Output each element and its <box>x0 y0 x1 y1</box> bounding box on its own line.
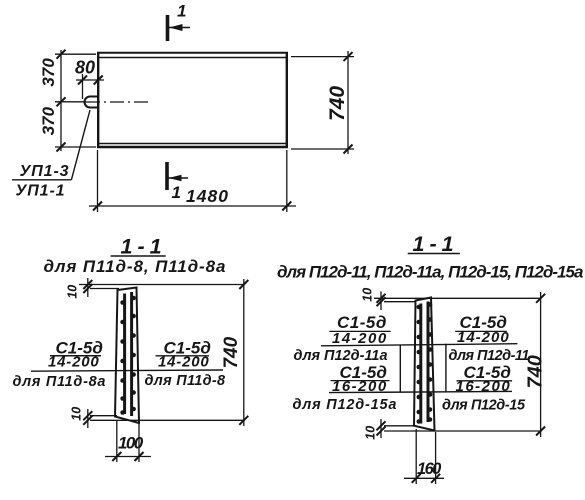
right dim 10 top: lower extension <box>384 301 417 303</box>
left dim 10 bottom: lower extension <box>90 419 244 421</box>
left dim 100: ticks <box>112 452 143 461</box>
right section leader A <box>321 344 517 346</box>
svg-text:14-200: 14-200 <box>48 354 100 371</box>
svg-text:10: 10 <box>361 288 375 302</box>
right labels left2: fraction line <box>331 380 390 382</box>
dimension 1480: dim line <box>89 205 296 207</box>
dimension 370/370: dim line <box>60 50 62 151</box>
left dim 10 bottom: dim line <box>87 409 89 428</box>
right dim 10 bottom: upper extension <box>384 425 415 427</box>
svg-text:10: 10 <box>66 285 80 299</box>
right dim 160: extension left <box>415 429 417 484</box>
left section leader line <box>31 370 223 371</box>
svg-text:для П12д-11а: для П12д-11а <box>294 348 388 364</box>
left labels left: fraction line <box>50 355 101 357</box>
right bracket right vertical <box>445 344 447 392</box>
dimension 740 (plan): extension top <box>291 56 354 58</box>
tab centerline (dash-dot) <box>86 101 150 103</box>
svg-text:100: 100 <box>118 434 144 453</box>
left bar mesh 2 cross-bar dots <box>131 296 136 412</box>
left bar mesh 1 cross-bar dots <box>120 300 125 415</box>
svg-text:10: 10 <box>364 426 378 440</box>
left labels right: fraction line <box>156 355 210 357</box>
svg-text:для П11д-8, П11д-8а: для П11д-8, П11д-8а <box>44 257 227 276</box>
svg-text:для П12д-15: для П12д-15 <box>442 398 526 414</box>
right section title underline <box>408 253 460 255</box>
right dim 10 top: upper extension <box>374 297 540 299</box>
svg-text:1480: 1480 <box>186 186 229 206</box>
svg-text:160: 160 <box>417 460 442 478</box>
svg-text:740: 740 <box>221 336 242 368</box>
dimension 370/370: extension top <box>55 53 96 55</box>
svg-text:14-200: 14-200 <box>332 330 388 347</box>
svg-text:для П12д-15а: для П12д-15а <box>293 397 398 413</box>
right bracket left vertical <box>399 345 401 392</box>
left bar mesh line 2 <box>130 292 133 416</box>
right dim 10 bottom: dim line <box>380 419 382 438</box>
right dim 740: ticks <box>536 294 545 436</box>
right labels right1: fraction line <box>455 330 507 332</box>
left dim 100: extension right <box>138 424 140 462</box>
svg-text:14-200: 14-200 <box>158 354 210 371</box>
right bar mesh line 2 <box>427 302 430 423</box>
svg-text:1: 1 <box>177 2 186 21</box>
dimension 1480: ticks <box>93 202 291 211</box>
right bar mesh 1 cross-bar dots <box>417 305 422 424</box>
left dim 100: dim line <box>105 456 151 458</box>
dimension 1480: extension left <box>97 150 99 212</box>
left dim 740: ticks <box>239 280 248 425</box>
right dim 10 bottom: lower extension <box>384 430 540 432</box>
left section title underline <box>111 255 166 257</box>
left dim 740: dim line <box>243 279 245 426</box>
svg-text:1-1: 1-1 <box>413 232 459 256</box>
panel outline: bottom edge (double line) <box>97 144 288 148</box>
svg-text:для П12д-11, П12д-11а, П12д-15: для П12д-11, П12д-11а, П12д-15, П12д-15а <box>277 263 583 282</box>
leader УП1: shelf line <box>12 179 71 181</box>
svg-text:1-1: 1-1 <box>121 234 167 258</box>
right dim 740: dim line <box>540 292 542 437</box>
right labels left1: fraction line <box>329 330 390 332</box>
dimension 80: extension line <box>82 74 84 99</box>
svg-text:14-200: 14-200 <box>457 329 510 346</box>
section mark 1 (top): direction arrow <box>169 24 190 31</box>
svg-text:740: 740 <box>326 86 349 121</box>
dimension 80: dim line <box>76 79 104 81</box>
svg-text:УП1-1: УП1-1 <box>16 183 66 200</box>
right bar mesh 2 cross-bar dots <box>428 302 433 422</box>
dimension 370/370: extension middle <box>55 101 86 103</box>
svg-text:10: 10 <box>69 407 83 421</box>
left dim 10 top: upper extension <box>79 284 244 286</box>
right dim 160: dim line <box>404 477 444 479</box>
svg-text:370: 370 <box>39 58 58 87</box>
svg-text:1: 1 <box>172 183 181 202</box>
right labels right2: fraction line <box>457 380 513 382</box>
svg-text:УП1-3: УП1-3 <box>20 163 70 180</box>
right dim 160: ticks <box>412 474 440 483</box>
right dim 10 top: dim line <box>380 292 382 311</box>
left dim 100: extension left <box>116 420 118 462</box>
right bar mesh line 1 <box>419 304 422 424</box>
dimension 740 (plan): extension bottom <box>291 148 354 150</box>
svg-text:для П11д-8: для П11д-8 <box>145 373 227 389</box>
svg-text:370: 370 <box>39 106 58 135</box>
panel outline: top edge (double line) <box>97 53 288 58</box>
dimension 370/370: ticks <box>57 50 66 152</box>
panel outline: right edge <box>286 52 288 148</box>
left dim 10 bottom: ticks <box>83 411 92 425</box>
section mark 1 (top): cut line <box>166 15 170 41</box>
dimension 80: ticks <box>78 76 103 85</box>
dimension 740 (plan): ticks <box>344 52 353 153</box>
left dim 10 top: lower extension <box>90 288 119 290</box>
right dim 10 bottom: ticks <box>377 421 386 435</box>
left dim 10 top: ticks <box>83 280 92 293</box>
svg-text:80: 80 <box>75 58 95 78</box>
leader УП1: diagonal <box>71 110 90 180</box>
dimension 370/370: extension bottom <box>55 146 96 148</box>
svg-text:для П11д-8а: для П11д-8а <box>13 374 107 390</box>
dimension 740 (plan): dim line <box>347 51 349 154</box>
right dim 10 top: ticks <box>377 294 386 306</box>
left bar outline <box>115 288 139 424</box>
left bar mesh line 1 <box>123 294 126 415</box>
section mark 1 (bottom): cut line <box>165 162 169 190</box>
right bar outline <box>414 298 435 431</box>
right section leader B <box>329 391 512 392</box>
section mark 1 (bottom): direction arrow <box>169 175 189 182</box>
dimension 1480: extension right <box>286 150 288 212</box>
panel outline: left edge <box>97 52 99 148</box>
left dim 10 bottom: upper extension <box>90 415 117 417</box>
right dim 160: extension right <box>435 432 437 484</box>
svg-text:для П12д-11: для П12д-11 <box>449 348 530 364</box>
svg-text:16-200: 16-200 <box>456 378 512 395</box>
lifting loop tab УП <box>85 97 100 108</box>
svg-text:740: 740 <box>524 355 546 388</box>
left dim 10 top: dim line <box>87 278 89 297</box>
